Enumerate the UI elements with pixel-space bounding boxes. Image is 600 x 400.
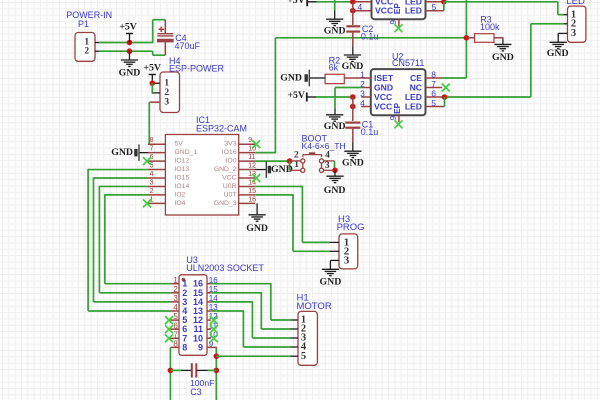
wire U3 pin14 to H1 pin3	[211, 301, 253, 303]
svg-text:U0T: U0T	[224, 191, 237, 198]
junction IO0 at BOOT	[287, 158, 293, 164]
svg-text:12: 12	[248, 162, 256, 169]
svg-text:GND: GND	[342, 157, 364, 168]
plus sign of C4	[159, 27, 164, 32]
svg-text:NC: NC	[410, 83, 422, 93]
no-connect X on U2 EP	[395, 120, 403, 128]
BOOT internal ties	[302, 163, 304, 168]
svg-text:VCC: VCC	[375, 5, 393, 15]
svg-text:IO2: IO2	[175, 191, 186, 198]
svg-text:0.1u: 0.1u	[361, 127, 379, 137]
svg-text:5: 5	[301, 351, 306, 362]
svg-text:IO15: IO15	[175, 175, 190, 182]
junction H4 pin1	[150, 80, 156, 86]
no-connect X on IC1 VCC pin13	[252, 174, 260, 182]
svg-text:9: 9	[198, 342, 203, 352]
svg-text:ULN2003 SOCKET: ULN2003 SOCKET	[186, 263, 264, 273]
U3 pin1 orientation dot	[182, 278, 186, 282]
wire corner up to C4 top	[152, 20, 154, 44]
U1 pin 3 VCC	[353, 1, 372, 3]
U1 pin 6 LED	[426, 1, 444, 3]
svg-text:ISET: ISET	[374, 73, 394, 83]
wire bundle IC1 IO2 to U3 pin1	[105, 194, 148, 196]
svg-text:100k: 100k	[480, 22, 500, 32]
U3 left pin 1	[171, 283, 180, 285]
svg-text:+5V: +5V	[143, 62, 161, 73]
U2 right pin 5 (LED)	[426, 106, 445, 108]
svg-text:GND_2: GND_2	[214, 166, 237, 173]
H1 pin 1	[291, 319, 299, 321]
U3 right pin 15	[207, 292, 211, 294]
wire H4.3 down to IC1 5V pin	[148, 102, 150, 144]
svg-text:470uF: 470uF	[175, 41, 201, 51]
R3 right lead to ground	[494, 37, 503, 39]
svg-text:8: 8	[150, 137, 154, 144]
junction on GND net at P1	[127, 48, 133, 54]
junction U2 VCC pin4	[350, 104, 356, 110]
svg-text:LED: LED	[405, 92, 422, 102]
svg-text:EP: EP	[393, 3, 402, 14]
GND symbol at IC1 GND_1 pin7	[140, 152, 149, 154]
svg-text:3V3: 3V3	[224, 141, 236, 148]
ESP32 module IC1	[165, 135, 238, 216]
pin stub LED.2	[563, 23, 567, 25]
svg-text:ESP-POWER: ESP-POWER	[169, 63, 225, 73]
svg-text:IO13: IO13	[175, 166, 190, 173]
U2 right pin 7 (NC)	[426, 87, 443, 89]
svg-text:8: 8	[173, 340, 178, 349]
wire IC1 IO16 up to LED rail	[255, 152, 275, 154]
svg-text:GND: GND	[324, 26, 346, 37]
junction U1 VCC pin4	[350, 8, 356, 14]
svg-text:0.1u: 0.1u	[361, 31, 379, 41]
no-connect X on U3 pin6	[165, 325, 173, 333]
svg-text:9: 9	[248, 137, 252, 144]
svg-text:8: 8	[182, 342, 187, 352]
svg-text:GND: GND	[324, 121, 346, 132]
tie H4 pin1 to pin2	[151, 83, 153, 93]
svg-text:VCC: VCC	[374, 102, 392, 112]
GND at IC1 GND_3 pin16	[256, 203, 258, 214]
pin stub H3.2	[329, 250, 339, 252]
svg-text:5V: 5V	[175, 141, 184, 148]
svg-text:GND: GND	[280, 72, 302, 83]
svg-text:+5V: +5V	[287, 90, 305, 101]
svg-text:IO12: IO12	[175, 158, 190, 165]
svg-text:4: 4	[150, 171, 154, 178]
junction U1 VCC pin3	[350, 0, 356, 5]
svg-text:2: 2	[150, 188, 154, 195]
svg-text:3: 3	[344, 255, 350, 267]
svg-text:3: 3	[325, 161, 330, 171]
capacitor C4 470uF polarized	[164, 20, 166, 33]
svg-text:5: 5	[173, 312, 178, 321]
wires U3 outputs to H1 MOTOR	[211, 283, 271, 285]
svg-text:5: 5	[432, 2, 437, 12]
wire LED.2 to U2 LED pins	[531, 23, 563, 25]
svg-text:GND: GND	[324, 185, 346, 196]
tie BOOT pins 3-4 to GND	[334, 161, 336, 170]
svg-text:6k: 6k	[329, 62, 339, 72]
wire U3 pin13 to H1 pin4	[211, 310, 244, 312]
pin stub P1.2	[95, 50, 99, 52]
svg-text:EP: EP	[393, 102, 402, 113]
pin stub H3.3 to ground	[330, 259, 339, 261]
H1 pin 2	[291, 328, 299, 330]
svg-text:3: 3	[164, 97, 169, 107]
wire IC1 U0R to H3 pin1	[255, 185, 302, 187]
GND symbol at IC1 GND_2 pin12	[255, 169, 266, 171]
svg-text:3: 3	[173, 294, 178, 303]
U3 left pin 7	[171, 337, 180, 339]
svg-text:VCC: VCC	[222, 175, 236, 182]
svg-text:MOTOR: MOTOR	[297, 301, 332, 312]
svg-text:P1: P1	[78, 19, 89, 29]
wire bundle IC1 IO13 to U3 pin4	[88, 169, 148, 171]
U1 LED pins tied	[441, 0, 447, 5]
junction C3 left	[168, 368, 174, 374]
pin stub LED.3 to ground	[558, 32, 567, 34]
junction C3 right	[214, 368, 220, 374]
tie BOOT pins 1-2	[289, 161, 291, 170]
no-connect X on U3 pin7	[165, 334, 173, 342]
svg-text:LED: LED	[405, 5, 422, 15]
connector H3 PROG	[339, 234, 358, 269]
U2 EP pin stub	[398, 115, 400, 122]
U3 left pin 6	[171, 328, 180, 330]
U3 left pin 4	[171, 310, 180, 312]
U2 left pin 1 (ISET)	[361, 77, 371, 79]
pin stub LED.1	[563, 14, 567, 16]
capacitor C2 0.1u	[346, 25, 360, 27]
U3 right pin 12	[207, 319, 211, 321]
wire P1.2 to GND and C4 bottom	[99, 50, 153, 52]
svg-text:2: 2	[84, 46, 89, 56]
no-connect X on IC1 3V3	[252, 140, 260, 148]
junction on +5V net	[127, 40, 133, 46]
svg-text:7: 7	[431, 79, 436, 89]
svg-text:IO0: IO0	[226, 158, 237, 165]
no-connect X on U3 pin12	[210, 316, 218, 324]
svg-text:VCC: VCC	[374, 92, 392, 102]
junction CE rail R3	[464, 35, 470, 41]
wire U3 pin15 to H1 pin2	[211, 292, 261, 294]
IC1 right pin 10 (IO16)	[239, 152, 256, 154]
U3 right pin 14	[207, 301, 211, 303]
IC1 right pin 15 (U0T)	[239, 194, 256, 196]
wire U3 pin9 to H1 pin5	[216, 355, 290, 357]
svg-text:1: 1	[164, 78, 169, 88]
svg-text:9: 9	[389, 115, 398, 120]
svg-text:GND: GND	[374, 83, 393, 93]
IC1 left pin 7 (GND_1)	[148, 152, 165, 154]
wire IC1 U0T to H3 pin2	[255, 194, 293, 196]
svg-text:CN5711: CN5711	[392, 58, 424, 68]
U2 GND pin2 wire to ground	[335, 87, 361, 89]
svg-text:POWER-IN: POWER-IN	[66, 10, 112, 20]
U3 right pin 10	[207, 337, 211, 339]
no-connect X on IC1 IO12	[143, 157, 151, 165]
no-connect X on U3 pin10	[210, 334, 218, 342]
ground symbol below P1 wire	[129, 51, 131, 60]
BOOT pin 2 stub	[290, 160, 301, 162]
ground below BOOT	[334, 170, 336, 176]
wire U2 CE to R3 net	[442, 77, 466, 79]
capacitor C3 100nF	[170, 369, 181, 371]
U3 right pin 13	[207, 310, 211, 312]
IC1 right pin 16 (GND_3)	[239, 202, 256, 204]
charger U1 (top, partially cut off)	[372, 0, 426, 19]
U3 left pin 5	[171, 319, 180, 321]
svg-text:3: 3	[360, 88, 365, 98]
U3 left pin 2	[171, 292, 180, 294]
wire bundle IC1 IO14 to U3 pin2	[99, 185, 148, 187]
svg-text:GND: GND	[271, 164, 293, 175]
power input connector P1	[75, 33, 95, 62]
svg-text:C3: C3	[190, 387, 202, 397]
svg-text:GND_3: GND_3	[214, 200, 237, 207]
svg-text:PROG: PROG	[337, 222, 365, 233]
U2 right pin 8 (CE)	[426, 77, 443, 79]
junction U2 VCC pin3	[350, 94, 356, 100]
wire bundle IC1 IO15 to U3 pin3	[94, 177, 149, 179]
resistor R3 100k	[466, 37, 474, 39]
wire P1.1 to +5V junction and C4	[99, 42, 153, 44]
svg-text:5: 5	[431, 98, 436, 108]
U2 left pin 4 (VCC)	[361, 106, 371, 108]
U3 left pin 8	[171, 346, 180, 348]
U3 left pin 3	[171, 301, 180, 303]
IC1 left pin 1 (IO4)	[148, 202, 165, 204]
svg-text:1: 1	[173, 276, 178, 285]
pin stub H4.3	[149, 101, 160, 103]
ground below C1	[352, 143, 354, 152]
svg-text:4: 4	[357, 2, 362, 12]
pin stub P1.1	[95, 42, 99, 44]
svg-text:CE: CE	[410, 73, 422, 83]
BOOT actuator lever	[303, 154, 322, 156]
svg-text:IO4: IO4	[175, 200, 186, 207]
U2 left pin 3 (VCC)	[361, 96, 371, 98]
U3 right pin 16	[207, 283, 211, 285]
svg-text:3: 3	[571, 28, 576, 39]
IC1 left pin 3 (IO14)	[148, 185, 165, 187]
svg-text:7: 7	[173, 330, 178, 339]
svg-text:2: 2	[173, 285, 178, 294]
socket U3 ULN2003	[179, 275, 207, 356]
svg-text:9: 9	[389, 20, 398, 25]
IC1 left pin 5 (IO13)	[148, 169, 165, 171]
no-connect X on U3 pin5	[165, 316, 173, 324]
R2 right lead to U2 ISET	[344, 77, 361, 79]
pin stub H3.1	[329, 241, 339, 243]
svg-text:3: 3	[150, 179, 154, 186]
IC1 right pin 13 (VCC)	[239, 177, 256, 179]
wire U3 pin9 down right side	[211, 346, 217, 348]
svg-text:7: 7	[150, 146, 154, 153]
pin stub H4.1	[152, 82, 160, 84]
svg-text:6: 6	[431, 88, 436, 98]
wire CE net vertical from top	[465, 0, 467, 78]
svg-text:4: 4	[325, 150, 330, 160]
svg-text:GND_1: GND_1	[175, 149, 198, 156]
U1 pin 5 LED	[426, 10, 444, 12]
svg-text:6: 6	[173, 321, 178, 330]
U1 pin 4 VCC	[353, 10, 372, 12]
IC1 left pin 6 (IO12)	[148, 160, 165, 162]
BOOT pin 3 stub	[324, 169, 335, 171]
no-connect X on U2 NC pin	[442, 84, 450, 92]
svg-text:ESP32-CAM: ESP32-CAM	[196, 124, 247, 134]
svg-text:GND: GND	[246, 223, 268, 234]
U2 right pin 6 (LED)	[426, 96, 445, 98]
svg-text:K4-6×6_TH: K4-6×6_TH	[302, 141, 346, 151]
U3 right pin 11	[207, 328, 211, 330]
rail from U1 LED to top LED connector	[444, 1, 558, 3]
svg-text:LED: LED	[405, 102, 422, 112]
wire U3 pin8 down to C3 left	[169, 347, 171, 400]
svg-text:U0R: U0R	[223, 183, 237, 190]
svg-text:8: 8	[431, 69, 436, 79]
svg-text:GND: GND	[320, 276, 342, 287]
svg-text:GND: GND	[111, 147, 133, 158]
svg-text:4: 4	[360, 98, 365, 108]
charger U2 CN5711	[371, 69, 426, 115]
ground below C2	[352, 46, 354, 55]
svg-text:GND: GND	[492, 52, 514, 63]
svg-text:+5V: +5V	[119, 22, 137, 33]
IC1 left pin 2 (IO2)	[148, 194, 165, 196]
svg-text:11: 11	[248, 154, 255, 161]
svg-text:LED: LED	[566, 0, 585, 7]
IC1 right pin 12 (GND_2)	[239, 169, 256, 171]
tie VCC pins to C1	[352, 97, 354, 121]
junction BOOT pin3 GND	[332, 168, 338, 174]
no-connect X on U3 pin11	[210, 325, 218, 333]
IC1 left pin 4 (IO15)	[148, 177, 165, 179]
pin stub H4.2	[152, 92, 160, 94]
wire IC1 IO0 to BOOT button	[255, 160, 289, 162]
svg-text:4: 4	[173, 303, 178, 312]
svg-text:IO14: IO14	[175, 183, 190, 190]
capacitor C1 0.1u	[345, 121, 360, 123]
connector H1 MOTOR	[298, 311, 317, 365]
U2 LED pins tied	[442, 94, 448, 100]
C2 tie to U1 VCC pins	[352, 2, 354, 25]
GND drop from above crossing rail	[334, 0, 336, 11]
connector H4 ESP-POWER	[160, 72, 180, 113]
svg-text:GND: GND	[547, 48, 569, 59]
H1 pin 5	[291, 355, 299, 357]
IC1 right pin 14 (U0R)	[239, 185, 256, 187]
U3 right pin 9	[207, 346, 211, 348]
BOOT pin 1 stub	[290, 169, 301, 171]
svg-text:+5V: +5V	[287, 0, 305, 6]
svg-text:GND: GND	[119, 68, 141, 79]
LED control rail to R3	[275, 37, 466, 39]
R2 left lead to GND symbol	[310, 77, 325, 79]
U1 EP pin stub	[398, 19, 400, 26]
svg-text:15: 15	[248, 188, 256, 195]
svg-text:IO16: IO16	[222, 149, 237, 156]
BOOT pin 4 stub	[324, 160, 335, 162]
svg-text:16: 16	[248, 196, 256, 203]
no-connect X on U1 EP	[395, 24, 403, 32]
H1 pin 3	[291, 337, 299, 339]
IC1 right pin 9 (3V3)	[239, 143, 256, 145]
IC1 left pin 8 (5V)	[148, 143, 165, 145]
no-connect X on IC1 IO4	[143, 199, 151, 207]
BOOT contact circles	[301, 159, 305, 163]
U2 left pin 2 (GND)	[361, 87, 371, 89]
junction U3 pin9 to motor pin5	[214, 353, 220, 359]
H1 pin 4	[291, 346, 299, 348]
IC1 right pin 11 (IO0)	[239, 160, 256, 162]
connector LED top right	[568, 6, 586, 42]
